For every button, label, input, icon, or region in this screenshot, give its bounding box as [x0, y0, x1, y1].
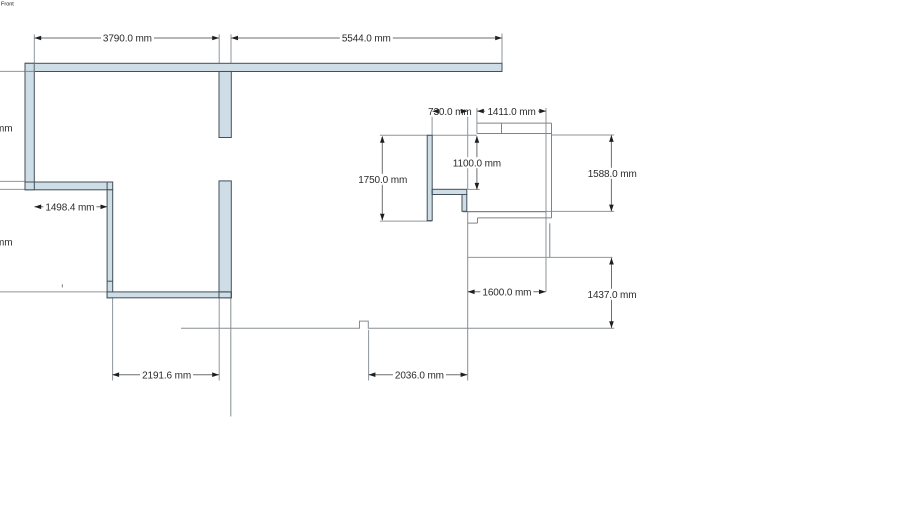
svg-text:1437.0 mm: 1437.0 mm [588, 290, 637, 301]
extension line x468 long [467, 212, 469, 381]
dimension 1100.0 mm vertical [450, 136, 503, 190]
svg-text:1411.0 mm: 1411.0 mm [487, 107, 535, 118]
svg-text:1600.0 mm: 1600.0 mm [482, 288, 531, 299]
extension line x231 long [230, 298, 232, 417]
extension line left y292 [0, 291, 107, 293]
wall island vertical [427, 135, 432, 220]
extension line y211 right [546, 210, 614, 212]
extension overlay y71 across left wall [25, 70, 34, 72]
extension line y135 right segment [552, 134, 615, 136]
wall interior upper [219, 72, 231, 138]
wall left [25, 63, 34, 190]
extension line x502 top [501, 34, 503, 64]
cabinet shelf line [477, 133, 552, 135]
wall lower-left vertical [107, 190, 113, 298]
wall joint bottom wall over interior wall [219, 291, 231, 293]
wall top [25, 63, 502, 71]
dimension 1750.0 mm vertical [356, 136, 409, 221]
extension line left y189 [0, 188, 25, 190]
svg-text:1588.0 mm: 1588.0 mm [588, 169, 637, 180]
svg-text:3790.0 mm: 3790.0 mm [103, 34, 152, 45]
wall joint interior wall left edge across bottom wall [218, 292, 220, 298]
dimension 2036.0 mm [369, 369, 468, 381]
view label Front [1, 2, 14, 8]
extension line x432 upper [431, 108, 433, 136]
extension line y135 left segment [380, 134, 477, 136]
extension line x112 bottom [112, 298, 114, 381]
dimension 3790.0 mm [34, 33, 219, 45]
cabinet divider [501, 123, 503, 133]
extension line x468 upper [467, 108, 469, 190]
svg-text:1498.4 mm: 1498.4 mm [45, 203, 94, 214]
cabinet top edge [477, 122, 552, 124]
cabinet right edge [551, 123, 553, 218]
cabinet inner bottom line [478, 217, 552, 219]
extension line x219 bottom [218, 298, 220, 381]
svg-text:2191.6 mm: 2191.6 mm [142, 370, 191, 381]
wall joint island horizontal edge [462, 194, 467, 196]
wall joint lower-left wall edge [106, 182, 108, 190]
dimension 1498.4 mm [34, 201, 107, 213]
dimension 1411.0 mm [477, 106, 546, 118]
extension line x34 top [33, 34, 35, 63]
extension line left y181 [0, 180, 25, 182]
svg-text:1750.0 mm: 1750.0 mm [358, 175, 407, 186]
dimension 5544.0 mm [231, 33, 502, 45]
cabinet side line x550 [549, 223, 551, 257]
dimension 1600.0 mm [468, 286, 546, 298]
svg-text:730.0 mm: 730.0 mm [428, 107, 472, 118]
svg-text:Front: Front [1, 2, 14, 8]
svg-text:1100.0 mm: 1100.0 mm [453, 158, 501, 169]
wall interior lower [219, 181, 231, 298]
wall bottom [107, 292, 231, 298]
wall joint island vertical edge [431, 189, 433, 194]
svg-text:mm: mm [0, 238, 12, 249]
wall joint left wall inner edge [33, 182, 35, 190]
cabinet step horizontal [468, 222, 478, 224]
cabinet bottom edge [463, 211, 547, 213]
wall island vertical 2 [462, 195, 467, 212]
extension line x231 top [230, 34, 232, 63]
dimension 1437.0 mm vertical [586, 258, 639, 328]
extension line x219 top [218, 34, 220, 63]
wall joint interior wall right edge across bottom wall [230, 292, 232, 298]
partial label mm upper-left [0, 124, 12, 135]
wall island horizontal [432, 189, 467, 194]
svg-text:mm: mm [0, 124, 12, 135]
wall joint top wall over interior wall [219, 70, 231, 72]
extension line y221 [380, 220, 432, 222]
cabinet step vertical [477, 218, 479, 223]
dimension 2191.6 mm [112, 369, 219, 381]
extension line x546 long [545, 108, 547, 292]
wall middle horizontal [25, 182, 113, 190]
dimension 730.0 mm [427, 106, 473, 118]
extension overlay x34 across top wall [33, 63, 35, 71]
svg-text:2036.0 mm: 2036.0 mm [395, 370, 444, 381]
long reference line y328 with notch [181, 321, 614, 328]
svg-text:5544.0 mm: 5544.0 mm [342, 34, 391, 45]
extension line left y71 [0, 70, 34, 72]
partial label mm lower-left [0, 238, 12, 249]
extension line x368 bottom [368, 330, 370, 381]
cabinet left edge [476, 108, 478, 134]
small tick mark [61, 284, 63, 287]
extension line y257 [468, 256, 613, 258]
extension line y189 short [468, 188, 480, 190]
wall joint tick in lower-left wall [107, 280, 113, 282]
dimension 1588.0 mm vertical [586, 135, 639, 211]
